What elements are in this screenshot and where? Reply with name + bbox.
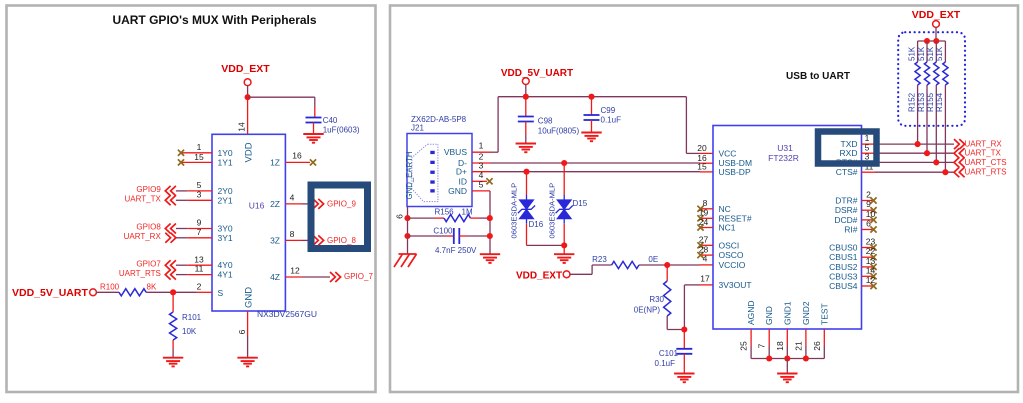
pin 2 DTR# no-connect (862, 200, 875, 202)
svg-text:VCCIO: VCCIO (719, 260, 746, 270)
svg-text:GPIO8: GPIO8 (136, 223, 161, 232)
svg-text:4: 4 (290, 193, 295, 203)
svg-text:3: 3 (197, 189, 202, 199)
port GPIO_8 (285, 239, 302, 241)
wire UART_RTS to pin (176, 274, 187, 276)
svg-text:51K: 51K (917, 46, 926, 61)
svg-text:2Z: 2Z (270, 199, 280, 209)
svg-text:R156: R156 (435, 208, 455, 217)
svg-text:DCD#: DCD# (834, 215, 857, 225)
svg-text:9: 9 (866, 199, 871, 209)
left panel frame (7, 6, 376, 393)
svg-text:UART_TX: UART_TX (124, 195, 161, 204)
svg-text:51K: 51K (907, 46, 916, 61)
op-amp U16 body (analog mux NX3DV2567GU) (212, 134, 285, 311)
port UART_TX (954, 148, 965, 158)
USB connector outline (412, 144, 438, 201)
svg-text:UART GPIO's MUX With Periphera: UART GPIO's MUX With Peripherals (112, 13, 316, 27)
svg-text:U16: U16 (249, 201, 265, 211)
pullup dotted box (898, 32, 965, 126)
svg-text:51K: 51K (926, 46, 935, 61)
capacitor C99 (591, 97, 593, 115)
svg-text:18: 18 (775, 341, 785, 351)
svg-text:C98: C98 (538, 117, 553, 126)
svg-text:GPIO_9: GPIO_9 (327, 200, 356, 209)
node junction S (170, 289, 176, 295)
node junction C98 (523, 94, 529, 100)
pin 19 RESET# no-connect (700, 217, 713, 219)
svg-text:10uF(0805): 10uF(0805) (538, 127, 580, 136)
wire diode common (527, 244, 565, 246)
svg-text:VDD_EXT: VDD_EXT (221, 63, 270, 75)
highlight box (TXD / RXD) (818, 132, 877, 164)
svg-text:OSCI: OSCI (719, 240, 740, 250)
svg-text:15: 15 (194, 152, 204, 162)
svg-text:8: 8 (290, 229, 295, 239)
svg-text:6: 6 (866, 219, 871, 229)
wire C40 top stub (314, 107, 316, 118)
svg-text:GND2: GND2 (801, 301, 811, 325)
pin 28 OSCO no-connect (700, 254, 713, 256)
svg-text:0603ESDA-MLP: 0603ESDA-MLP (510, 183, 519, 239)
svg-text:USB-DP: USB-DP (719, 167, 751, 177)
svg-text:17: 17 (700, 274, 710, 284)
svg-text:NC: NC (719, 204, 731, 214)
svg-text:OSCO: OSCO (719, 250, 744, 260)
pin 16 (1Z) no-connect (285, 161, 310, 163)
ground (C40) (303, 134, 323, 143)
svg-text:24: 24 (699, 217, 709, 227)
svg-text:1M: 1M (462, 208, 473, 217)
node junction R30 (664, 262, 670, 268)
pin 27 OSCI no-connect (700, 244, 713, 246)
wire to ground (786, 359, 788, 374)
pin 5 GND wire (472, 190, 490, 192)
pin 8 NC no-connect (700, 208, 713, 210)
svg-text:22: 22 (866, 246, 876, 256)
node junctions pullup bus (924, 38, 930, 44)
ground (C101) (674, 374, 694, 383)
pin 13 CBUS2 no-connect (862, 266, 875, 268)
pin 1 VBUS wire (472, 151, 490, 153)
svg-text:C40: C40 (323, 116, 338, 125)
svg-text:GND1: GND1 (782, 301, 792, 325)
svg-text:15: 15 (697, 162, 707, 172)
svg-text:CTS#: CTS# (836, 167, 858, 177)
svg-text:VDD_EXT: VDD_EXT (912, 9, 961, 21)
ground (U31) (777, 374, 797, 383)
pin 9 DSR# no-connect (862, 209, 875, 211)
resistor R153 51K (926, 41, 928, 62)
svg-text:5: 5 (479, 180, 484, 190)
resistor R155 51K (935, 41, 937, 62)
svg-text:1: 1 (197, 142, 202, 152)
wire VDD_5V rail (525, 84, 527, 97)
ESD diode D16 0603ESDA-MLP (523, 169, 529, 175)
ESD diode D15 0603ESDA-MLP (561, 160, 567, 166)
resistor R101 (172, 292, 174, 312)
svg-text:4Z: 4Z (270, 272, 280, 282)
svg-text:6: 6 (395, 214, 405, 219)
svg-text:UART_RX: UART_RX (965, 140, 1003, 149)
svg-text:DSR#: DSR# (835, 205, 858, 215)
svg-text:CBUS0: CBUS0 (829, 243, 858, 253)
svg-text:ID: ID (459, 176, 468, 186)
ground (C99) (581, 133, 601, 142)
svg-text:1Y1: 1Y1 (218, 157, 233, 167)
svg-text:0.1uF: 0.1uF (655, 359, 676, 368)
node junction VDD_EXT (245, 94, 251, 100)
svg-text:CBUS1: CBUS1 (829, 252, 858, 262)
pin 6 RI# no-connect (862, 229, 875, 231)
svg-text:U31: U31 (777, 143, 793, 153)
svg-text:UART_RTS: UART_RTS (965, 168, 1007, 177)
svg-text:R154: R154 (935, 92, 944, 112)
svg-text:R101: R101 (182, 313, 202, 322)
svg-text:R100: R100 (100, 283, 120, 292)
wire GPIO9 to pin (176, 190, 187, 192)
svg-text:11: 11 (195, 264, 204, 274)
svg-text:VCC: VCC (719, 148, 737, 158)
wire UART_TX to pin (176, 199, 187, 201)
svg-text:CBUS3: CBUS3 (829, 271, 858, 281)
svg-text:C100: C100 (433, 227, 453, 236)
svg-text:GPIO_8: GPIO_8 (327, 236, 356, 245)
node junction R154 (942, 169, 948, 175)
svg-text:23: 23 (866, 237, 876, 247)
svg-text:4.7nF 250V: 4.7nF 250V (435, 246, 477, 255)
port GPIO_7 (285, 276, 302, 278)
svg-text:1uF(0603): 1uF(0603) (323, 126, 360, 135)
svg-text:26: 26 (812, 341, 822, 351)
svg-text:27: 27 (699, 234, 709, 244)
svg-text:UART_RX: UART_RX (124, 232, 162, 241)
svg-text:1Y0: 1Y0 (218, 148, 233, 158)
wire GND pin 6 (247, 311, 249, 336)
wire RTS# row (862, 161, 876, 163)
svg-text:3Z: 3Z (270, 235, 280, 245)
svg-text:2: 2 (197, 282, 202, 292)
wire GPIO7 to pin (176, 264, 187, 266)
capacitor C40 (306, 117, 322, 119)
ground (R101) (163, 358, 183, 367)
svg-text:14: 14 (866, 265, 876, 275)
svg-text:UART_CTS: UART_CTS (965, 158, 1007, 167)
svg-text:AGND: AGND (746, 300, 756, 325)
resistor R154 51K (944, 41, 946, 62)
pin 12 CBUS4 no-connect (862, 285, 875, 287)
earth ground (J21) (394, 254, 417, 267)
pin 10 DCD# no-connect (862, 219, 875, 221)
svg-text:C99: C99 (601, 106, 616, 115)
capacitor C101 (683, 330, 685, 349)
svg-text:4: 4 (479, 170, 484, 180)
wire TXD row (862, 143, 876, 145)
svg-text:2Y1: 2Y1 (218, 195, 233, 205)
svg-text:GPIO9: GPIO9 (136, 185, 161, 194)
pin 6 GND_EARTH wire (407, 207, 409, 255)
port UART_RTS (954, 167, 965, 177)
wire to C40 (248, 96, 315, 98)
wire C40 bottom stub (313, 123, 315, 135)
svg-text:7: 7 (757, 343, 767, 348)
svg-text:C101: C101 (659, 349, 679, 358)
svg-text:14: 14 (237, 122, 247, 132)
svg-text:0E(NP): 0E(NP) (634, 306, 661, 315)
node junctions GND bus (766, 355, 772, 361)
svg-text:DTR#: DTR# (835, 196, 857, 206)
svg-text:TEST: TEST (819, 303, 829, 325)
pin 23 CBUS0 no-connect (862, 247, 875, 249)
resistor R30 (666, 265, 668, 281)
node junction R152 (915, 141, 921, 147)
svg-text:GND_EARTH: GND_EARTH (405, 152, 414, 200)
svg-text:CBUS4: CBUS4 (829, 281, 858, 291)
svg-text:VDD_5V_UART: VDD_5V_UART (501, 68, 573, 79)
capacitor C100 (408, 235, 447, 237)
node junction C100 left (404, 233, 410, 239)
wire pullup bus (918, 40, 946, 42)
svg-text:UART_RTS: UART_RTS (119, 269, 161, 278)
port UART_CTS (954, 157, 965, 167)
right panel frame (390, 6, 1018, 393)
svg-text:20: 20 (697, 143, 707, 153)
wire UART_RX to pin (176, 237, 187, 239)
node junction diode gnd (561, 242, 567, 248)
svg-text:D15: D15 (573, 199, 588, 208)
svg-text:GND: GND (244, 287, 255, 308)
node junction C99 (588, 94, 594, 100)
wire GPIO8 to pin (176, 228, 187, 230)
svg-text:10: 10 (866, 209, 876, 219)
svg-text:GND: GND (764, 306, 774, 325)
pin 3 D+ wire (472, 171, 490, 173)
wire CTS# row (862, 171, 876, 173)
pin 24 NC1 no-connect (700, 227, 713, 229)
svg-text:3: 3 (479, 160, 484, 170)
svg-text:GPIO7: GPIO7 (136, 259, 161, 268)
svg-text:R30: R30 (649, 295, 664, 304)
svg-text:16: 16 (292, 151, 302, 161)
node junction C101 (681, 326, 687, 332)
svg-text:3: 3 (865, 152, 870, 162)
node junction R156 left (404, 215, 410, 221)
pin 1 (1Y0) no-connect (181, 152, 212, 154)
node junction R155 (933, 159, 939, 165)
ground (U16 GND) (237, 358, 257, 367)
svg-text:NC1: NC1 (719, 223, 736, 233)
svg-text:3V3OUT: 3V3OUT (719, 280, 752, 290)
wire VDD pin 14 (247, 97, 249, 134)
ground (ESD diodes) (554, 254, 574, 263)
pin 2 D- wire (472, 162, 490, 164)
port GPIO_9 (285, 203, 302, 205)
svg-text:R152: R152 (907, 92, 916, 112)
svg-text:25: 25 (739, 341, 749, 351)
svg-text:D+: D+ (456, 167, 467, 177)
svg-text:21: 21 (793, 341, 803, 351)
svg-text:RI#: RI# (844, 225, 858, 235)
svg-text:NX3DV2567GU: NX3DV2567GU (257, 309, 317, 319)
resistor R156 (408, 217, 435, 219)
svg-text:0603ESDA-MLP: 0603ESDA-MLP (548, 183, 557, 239)
port UART_RX (954, 139, 965, 149)
svg-text:6: 6 (237, 329, 247, 334)
wire R100 to S pin (146, 291, 196, 293)
svg-text:USB to UART: USB to UART (786, 71, 850, 82)
svg-text:1Z: 1Z (270, 157, 280, 167)
wire to R100 (96, 291, 119, 293)
svg-text:R155: R155 (926, 92, 935, 112)
wire VDD_EXT to R23 (569, 273, 592, 275)
svg-text:VDD_5V_UART: VDD_5V_UART (12, 287, 88, 299)
pin 15 (1Y1) no-connect (181, 161, 212, 163)
node junction C100 right (487, 233, 493, 239)
svg-text:12: 12 (290, 265, 300, 275)
svg-text:8K: 8K (147, 283, 157, 292)
wire R23 to VCCIO (639, 264, 700, 266)
svg-text:8: 8 (703, 198, 708, 208)
pin 14 CBUS3 no-connect (862, 275, 875, 277)
svg-text:10K: 10K (182, 327, 197, 336)
highlight box (GPIO_9 / GPIO_8) (311, 185, 368, 249)
svg-text:R153: R153 (917, 92, 926, 112)
svg-text:0E: 0E (648, 255, 658, 264)
svg-text:D16: D16 (529, 220, 544, 229)
svg-text:VDD: VDD (244, 142, 255, 162)
svg-text:0.1uF: 0.1uF (601, 116, 622, 125)
svg-text:3Y1: 3Y1 (218, 233, 233, 243)
pin 22 CBUS1 no-connect (862, 256, 875, 258)
svg-text:28: 28 (699, 244, 709, 254)
wire VDD_EXT vertical (247, 85, 249, 97)
svg-text:12: 12 (866, 275, 876, 285)
svg-text:7: 7 (197, 227, 202, 237)
node junction R153 (924, 150, 930, 156)
svg-text:51K: 51K (935, 46, 944, 61)
svg-text:GND: GND (448, 186, 467, 196)
svg-text:UART_TX: UART_TX (965, 149, 1002, 158)
svg-text:VDD_EXT: VDD_EXT (516, 270, 562, 281)
ground (USB GND) (480, 254, 500, 263)
capacitor C98 (525, 97, 527, 117)
svg-text:4Y1: 4Y1 (218, 270, 233, 280)
svg-text:GPIO_7: GPIO_7 (344, 272, 373, 281)
svg-text:2: 2 (866, 190, 871, 200)
svg-text:VBUS: VBUS (444, 147, 467, 157)
svg-text:S: S (218, 288, 224, 298)
wire 3V3OUT (700, 284, 713, 286)
ground (C98) (516, 144, 536, 153)
svg-text:FT232R: FT232R (768, 153, 799, 163)
pin 4 ID no-connect (472, 180, 487, 182)
wire GND bus (U31 bottom) (750, 329, 752, 346)
IC U31 FT232R body (713, 126, 862, 330)
svg-text:R23: R23 (592, 255, 607, 264)
node junction R156 right (487, 215, 493, 221)
svg-text:19: 19 (699, 208, 709, 218)
wire RXD row (862, 152, 876, 154)
wire VDD_EXT to pullups (935, 27, 937, 41)
resistor R152 51K (917, 41, 919, 62)
svg-text:1: 1 (479, 141, 484, 151)
svg-text:J21: J21 (411, 124, 424, 133)
